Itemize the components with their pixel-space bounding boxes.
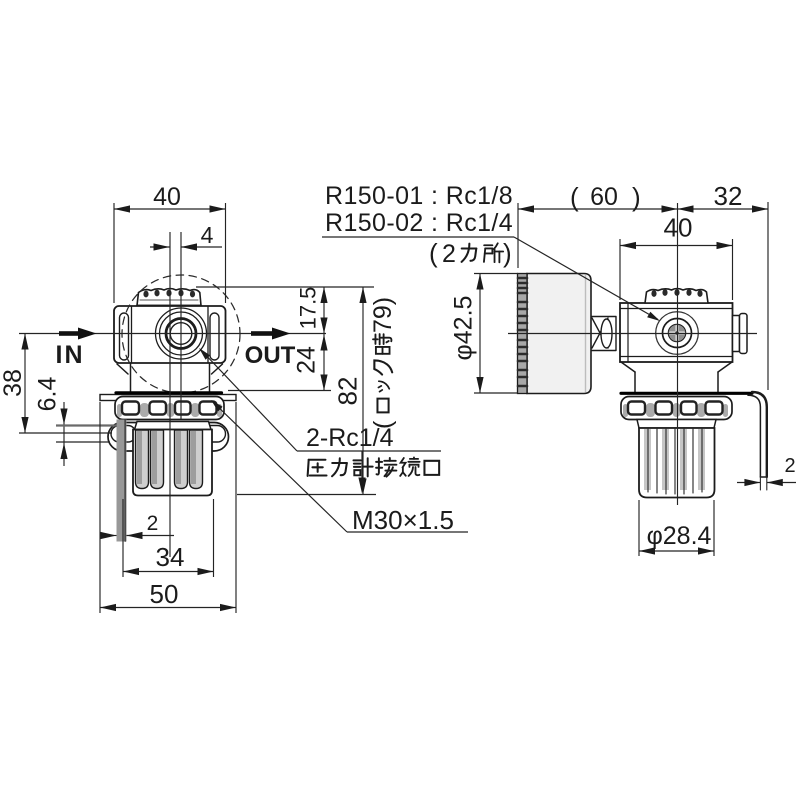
- IN arrow: [59, 328, 97, 340]
- bonnet ring front with tabs: [115, 397, 224, 420]
- gauge port label kanji: [308, 451, 440, 494]
- svg-text:60: 60: [590, 183, 618, 211]
- svg-text:38: 38: [0, 369, 27, 397]
- svg-text:): ): [503, 238, 512, 268]
- rotated (lock 79) note: [369, 297, 397, 429]
- dim 17.5 / 24: [196, 286, 374, 288]
- dim 2 bottom left: [102, 535, 117, 537]
- body skirt front: [117, 363, 223, 392]
- dim 38: [24, 334, 26, 434]
- svg-text:79): 79): [369, 297, 397, 333]
- svg-text:4: 4: [201, 222, 214, 248]
- svg-text:IN: IN: [56, 341, 85, 369]
- svg-text:82: 82: [333, 377, 363, 406]
- OUT port boss side: [733, 314, 748, 354]
- svg-text:φ42.5: φ42.5: [450, 296, 478, 361]
- bracket plate edge-on front: [100, 395, 236, 401]
- svg-text:40: 40: [664, 213, 693, 243]
- dim (60) / 32: [517, 203, 519, 268]
- top cap side: [645, 289, 708, 304]
- dashed gauge circle phi42.5 front: [122, 275, 240, 393]
- centerlines: [677, 203, 679, 505]
- adjusting screw circles side: [656, 312, 699, 355]
- svg-text:50: 50: [150, 579, 179, 609]
- dim 40: [619, 239, 621, 300]
- regulator body side: [620, 303, 733, 362]
- svg-text:φ28.4: φ28.4: [647, 522, 712, 550]
- dim 4: [150, 246, 170, 248]
- gauge port circles front: [156, 308, 207, 359]
- thick clamp line: [116, 391, 222, 394]
- dim 34: [122, 499, 124, 577]
- svg-text:OUT: OUT: [245, 342, 296, 369]
- svg-text:2: 2: [784, 455, 795, 477]
- dim 6.4: [63, 402, 65, 466]
- svg-text:R150-02 : Rc1/4: R150-02 : Rc1/4: [325, 209, 513, 237]
- knob side: [637, 420, 716, 498]
- leader 2-Rc1/4: [201, 350, 441, 451]
- body lower skirt side: [621, 362, 732, 392]
- mounting bracket side: thick seat + bent leg: [621, 392, 752, 395]
- gauge stem: [592, 317, 617, 351]
- svg-text:17.5: 17.5: [296, 287, 321, 330]
- svg-text:R150-01 : Rc1/8: R150-01 : Rc1/8: [325, 182, 513, 210]
- svg-text:M30×1.5: M30×1.5: [352, 505, 454, 535]
- bonnet ring side with tabs: [621, 397, 732, 420]
- dim 50: [99, 402, 101, 613]
- regulator body front: [114, 306, 226, 363]
- arrowheads left view: [114, 205, 130, 212]
- svg-text:32: 32: [714, 181, 743, 211]
- panel strip (2mm) front: [117, 420, 127, 542]
- bracket lower plate (stadium with slots) front: [108, 423, 229, 452]
- svg-text:): ): [632, 182, 641, 212]
- gauge knurled bezel: [518, 274, 528, 394]
- dim 2 right: [737, 482, 760, 484]
- leader M30x1.5: [213, 402, 468, 532]
- svg-text:(: (: [429, 238, 438, 268]
- adjusting knob front: [133, 422, 212, 496]
- svg-text:6.4: 6.4: [34, 377, 62, 412]
- svg-text:2: 2: [442, 240, 456, 268]
- dim 40 top: [113, 203, 115, 303]
- svg-text:34: 34: [156, 542, 185, 572]
- svg-text:2: 2: [147, 512, 159, 535]
- dim phi28.4: [638, 500, 640, 556]
- pressure gauge body: [527, 274, 591, 394]
- top cap (bonnet top) front: [137, 289, 201, 306]
- svg-text:40: 40: [153, 183, 181, 211]
- centerlines: [169, 232, 171, 557]
- dim 82: [362, 287, 364, 495]
- svg-text:2-Rc1/4: 2-Rc1/4: [306, 424, 394, 452]
- svg-text:24: 24: [293, 346, 321, 374]
- svg-text:(: (: [570, 182, 579, 212]
- dim phi42.5: [474, 273, 518, 275]
- OUT arrow: [251, 328, 291, 340]
